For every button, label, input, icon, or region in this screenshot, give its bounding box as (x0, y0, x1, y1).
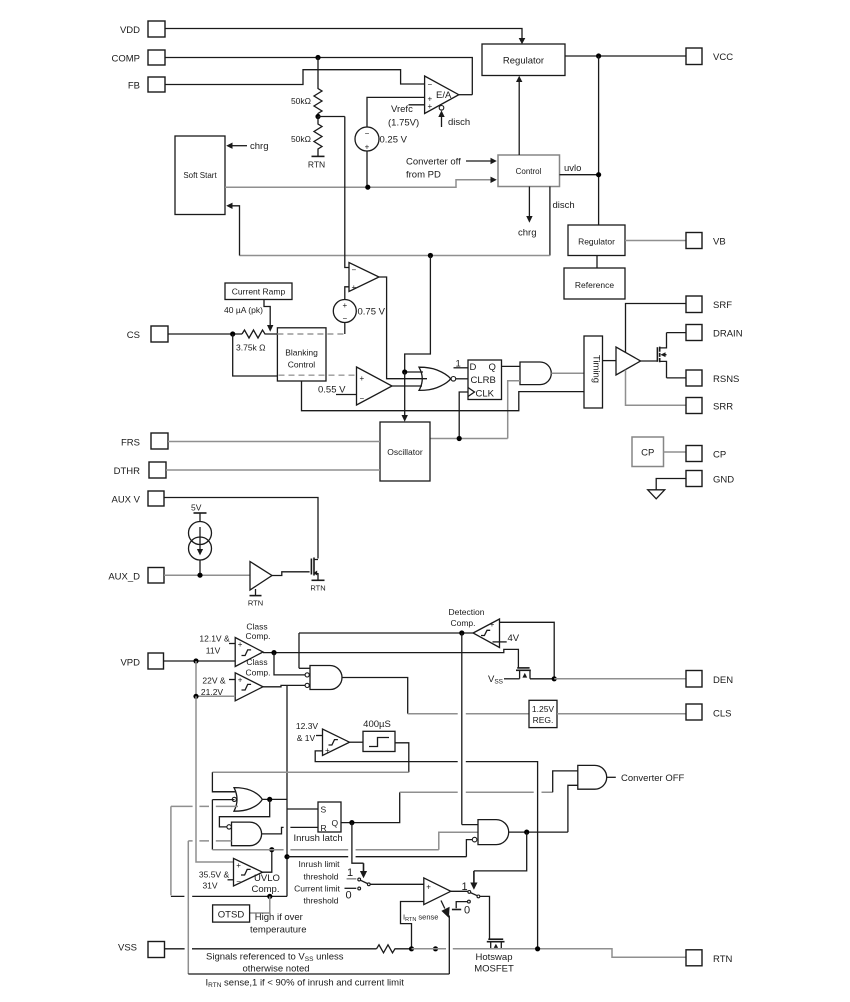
wire source to RSNS pin (667, 377, 687, 379)
svg-text:MOSFET: MOSFET (474, 964, 514, 975)
node disch bubble on E/A (439, 106, 444, 111)
svg-text:4V: 4V (508, 633, 520, 644)
label Vss (488, 674, 520, 686)
svg-text:Oscillator: Oscillator (387, 447, 423, 457)
svg-text:CS: CS (127, 330, 140, 341)
svg-text:AUX V: AUX V (111, 495, 140, 506)
svg-text:(1.75V): (1.75V) (388, 118, 419, 129)
transistor Hotswap MOSFET (487, 939, 505, 949)
wire class 2 net down to latch set (286, 685, 288, 896)
pin RSNS (686, 370, 739, 386)
wire FRS to oscillator (168, 441, 380, 443)
svg-text:IRTN sense,1 if < 90% of inrus: IRTN sense,1 if < 90% of inrush and curr… (206, 978, 405, 990)
transistor DEN pulldown MOSFET (516, 668, 531, 679)
ground RTN below buffer (248, 589, 263, 608)
wire CP block to CP pin (664, 451, 687, 453)
wire detection plus input to DEN (500, 622, 555, 679)
wire AND output to converter off gate (568, 785, 578, 832)
wire VPD down to UVLO comparator (196, 696, 234, 862)
label 12.1V and 11V threshold (199, 634, 235, 656)
comparator 12.3V inrush complete (323, 729, 350, 756)
resistor 50k lower (291, 117, 322, 157)
svg-text:DEN: DEN (713, 675, 733, 686)
pin VPD (120, 653, 163, 669)
wire reset arrow into oscillator (402, 372, 408, 422)
flip-flop D with CLRB CLK (468, 360, 502, 400)
node constant 1 at D input (454, 359, 469, 370)
node soft start line junction (365, 185, 370, 190)
svg-text:SRF: SRF (713, 300, 732, 311)
wire OR top input (212, 791, 236, 793)
pin VSS (118, 942, 165, 958)
svg-text:50kΩ: 50kΩ (291, 134, 311, 144)
svg-text:CLRB: CLRB (471, 375, 496, 386)
wire 0.75V to CS dashed line (344, 323, 346, 335)
wire RTN line (412, 949, 687, 958)
gate NAND class (305, 666, 342, 690)
source 0.25V offset (355, 127, 408, 152)
resistor 3.75k (236, 330, 277, 353)
svg-text:3.75k Ω: 3.75k Ω (236, 343, 266, 353)
wire dashed blanked output to 0.55V comparator (279, 374, 357, 376)
wire CLK from oscillator (459, 392, 468, 439)
wire dashed CS sense through blanking (277, 333, 344, 335)
label High if over temperauture (250, 912, 307, 936)
svg-text:S: S (321, 805, 327, 815)
wire oscillator output (430, 438, 508, 440)
svg-text:Comp.: Comp. (252, 884, 280, 895)
svg-text:CP: CP (713, 450, 726, 461)
svg-text:R: R (321, 823, 327, 833)
svg-text:Q: Q (489, 362, 496, 373)
gate NAND inrush reset (227, 822, 262, 846)
ground RTN below divider (308, 156, 325, 169)
pin DRAIN (686, 325, 743, 341)
wire UVLO to OR bubbled input (212, 800, 234, 850)
svg-text:+: + (490, 620, 495, 629)
wire CS pin to resistor (168, 333, 242, 335)
ground symbol GND (648, 490, 665, 499)
switch gate drive select (452, 881, 480, 917)
wire comparator to one-shot (350, 741, 364, 743)
node VCC junction (596, 53, 601, 58)
svg-text:−: − (360, 394, 365, 403)
wire OR output to latch S (262, 798, 287, 800)
pin CP (686, 446, 726, 462)
svg-text:Inrush latch: Inrush latch (294, 833, 343, 844)
block Current Ramp (225, 283, 292, 300)
pin GND (686, 471, 734, 487)
svg-text:disch: disch (448, 117, 470, 128)
wire NOR output to CLRB (456, 378, 468, 380)
label 12.3V and 1V threshold (296, 721, 323, 743)
wire VDD to Regulator (165, 29, 525, 45)
wire driver to gate (641, 360, 658, 362)
svg-text:+: + (360, 374, 365, 383)
comparator PWM soft start clamp (349, 263, 379, 293)
pin CLS (686, 704, 731, 720)
wire NAND class output to 1.25V regulator (342, 678, 408, 714)
pin CS (127, 326, 168, 342)
block Timing (584, 336, 603, 408)
svg-text:Inrush limit: Inrush limit (298, 859, 340, 869)
node discharge line junction (428, 253, 433, 258)
node OR output junction (267, 797, 272, 802)
wire Regulator to VCC pin (565, 55, 686, 57)
wire oscillator clock to AND input (508, 381, 520, 439)
svg-text:AUX_D: AUX_D (108, 572, 140, 583)
pin VB (686, 233, 726, 249)
node COMP divider junction (315, 55, 320, 60)
block Soft Start (175, 136, 225, 215)
pin VCC (686, 48, 733, 65)
wire DEN MOSFET drain to DEN pin (530, 678, 554, 680)
pin DTHR (114, 462, 166, 478)
label Inrush limit threshold (298, 859, 340, 881)
wire disch control arrow (438, 110, 470, 128)
wire buffer to AUX MOSFET gate (272, 572, 310, 576)
svg-text:1.25V: 1.25V (532, 704, 555, 714)
block Blanking Control (277, 328, 326, 381)
svg-text:RTN: RTN (310, 584, 325, 593)
svg-text:threshold: threshold (304, 871, 339, 881)
block Control (498, 155, 560, 187)
svg-text:RSNS: RSNS (713, 374, 739, 385)
node AND output junction (524, 830, 529, 835)
svg-text:Soft Start: Soft Start (183, 171, 217, 180)
wire OR feedback to NAND inrush bubble (219, 799, 269, 827)
svg-text:12.1V &: 12.1V & (199, 634, 230, 644)
svg-text:disch: disch (553, 200, 575, 211)
block CP charge pump (632, 437, 664, 467)
wire DTHR to oscillator (166, 469, 380, 471)
svg-text:RTN: RTN (248, 599, 263, 608)
pin DEN (686, 671, 733, 688)
wire comparator output to switch (451, 890, 468, 892)
svg-text:Timing: Timing (590, 355, 601, 383)
wire PWM comparator output to NOR (379, 277, 427, 379)
wire UVLO output up to gray enable line (263, 850, 272, 873)
svg-text:& 1V: & 1V (297, 733, 316, 743)
pin SRF (686, 296, 732, 313)
label Hotswap MOSFET (474, 952, 514, 975)
label Class Comp. 1 (245, 622, 270, 642)
svg-text:+: + (238, 676, 243, 685)
svg-text:VPD: VPD (120, 658, 140, 669)
node OTSD junction (267, 894, 272, 899)
block Oscillator (380, 422, 430, 481)
svg-text:50kΩ: 50kΩ (291, 96, 311, 106)
wire NAND inrush output to latch R (262, 827, 318, 834)
block Reference (564, 268, 625, 299)
resistor 50k upper (291, 58, 322, 117)
wire enable line to AND middle input (439, 832, 478, 849)
wire discharge into Soft Start (226, 203, 239, 256)
svg-text:chrg: chrg (250, 141, 268, 152)
node 5V supply (191, 503, 207, 522)
wire DEN pin (554, 678, 686, 680)
comparator Class Comp 2 (235, 673, 263, 701)
svg-text:40 µA (pk): 40 µA (pk) (224, 305, 263, 315)
svg-text:CLK: CLK (476, 389, 495, 400)
svg-text:Converter off: Converter off (406, 157, 461, 168)
wire bottom reset bus (188, 973, 449, 975)
block 1.25V REG (529, 700, 557, 727)
svg-text:Class: Class (246, 622, 267, 632)
svg-text:Comp.: Comp. (245, 668, 270, 678)
svg-text:12.3V: 12.3V (296, 721, 319, 731)
wire blanking to timing (302, 381, 585, 411)
node NOR input junction (402, 369, 407, 374)
wire VB regulator to VB pin (625, 240, 686, 242)
svg-text:+: + (236, 861, 241, 870)
wire current source to AUX_D node (199, 560, 201, 575)
svg-text:35.5V &: 35.5V & (199, 870, 230, 880)
block Regulator (VCC) (482, 44, 565, 76)
wire drain to DRAIN pin (667, 332, 687, 334)
wire SRF to driver (626, 304, 687, 353)
node VPD junction (193, 658, 198, 663)
wire UVLO enable line (212, 849, 438, 851)
svg-text:0: 0 (464, 905, 470, 917)
svg-text:VCC: VCC (713, 52, 733, 63)
wire comparator plus sense from hotswap drain (315, 751, 537, 949)
wire detection net to NAND top input (299, 633, 310, 668)
svg-text:Comp.: Comp. (450, 618, 475, 628)
svg-text:Comp.: Comp. (245, 631, 270, 641)
node divider mid junction (315, 114, 344, 119)
svg-text:+: + (238, 640, 243, 649)
node oscillator output junction (457, 436, 462, 441)
wire AND output to current limit switch (470, 832, 526, 890)
node AUX_D junction (197, 573, 202, 578)
gate NOR flip-flop clear (419, 367, 456, 390)
svg-text:−: − (236, 877, 241, 886)
transistor power MOSFET (657, 333, 666, 378)
wire SRR to driver (626, 370, 687, 406)
wire 0.25V source to E/A plus input (367, 97, 425, 127)
transistor AUX MOSFET (311, 558, 318, 581)
comparator Class Comp 1 (235, 638, 263, 667)
wire E/A output (459, 94, 473, 96)
svg-text:chrg: chrg (518, 228, 536, 239)
svg-text:0: 0 (346, 890, 352, 902)
label 4V threshold (493, 633, 520, 644)
block Regulator (VB) (568, 225, 625, 256)
svg-text:22V &: 22V & (202, 676, 225, 686)
svg-text:COMP: COMP (112, 54, 141, 65)
wire 0.25V source to soft start line (366, 151, 368, 187)
block 400uS one-shot (363, 719, 395, 752)
label Class Comp. 2 (245, 657, 270, 678)
svg-text:VB: VB (713, 237, 726, 248)
wire GND pin to ground (656, 479, 686, 490)
buffer AUX comparator (250, 562, 272, 591)
svg-text:threshold: threshold (304, 896, 339, 906)
wire Control to Regulator enable (516, 76, 522, 155)
label Current limit threshold (294, 883, 340, 905)
wire detection to AND top input (462, 824, 478, 826)
wire detection node line (299, 632, 473, 634)
svg-text:+: + (342, 301, 347, 310)
wire flip-flop Q to AND (502, 365, 521, 367)
svg-text:Blanking: Blanking (285, 348, 318, 358)
svg-text:Current Ramp: Current Ramp (232, 287, 286, 297)
svg-text:DRAIN: DRAIN (713, 329, 743, 340)
svg-text:+: + (325, 746, 330, 755)
svg-text:+: + (352, 283, 357, 292)
wire switch to hotswap gate (480, 896, 490, 939)
svg-text:5V: 5V (191, 503, 202, 513)
wire current ramp injection arrow (264, 300, 273, 332)
label Detection Comp. (449, 607, 485, 628)
svg-text:Control: Control (288, 360, 316, 370)
svg-text:Regulator: Regulator (578, 237, 615, 247)
wire AND output (509, 831, 568, 833)
svg-text:Current limit: Current limit (294, 883, 340, 893)
wire latch Q output (341, 792, 400, 822)
ground RTN below AUX MOSFET (310, 580, 325, 592)
svg-text:+: + (365, 143, 370, 152)
wire chrg output of Control (518, 187, 536, 239)
wire set line to OR input (212, 772, 408, 792)
node Q junction (349, 820, 354, 825)
pin RTN (686, 950, 732, 966)
wire disch from Control to discharge line (550, 187, 575, 256)
svg-text:−: − (428, 80, 433, 89)
node RTN sense taps (409, 946, 438, 951)
wire overtemp net to OR lower input (171, 806, 238, 895)
svg-text:RTN: RTN (308, 160, 325, 170)
node CS junction (230, 331, 235, 336)
wire discharge node down to NOR (405, 256, 431, 373)
wire Soft Start output to Control (Converter off from PD) (225, 177, 497, 188)
node DEN junction (552, 676, 557, 681)
wire OTSD output (250, 896, 270, 913)
comparator UVLO Comp (234, 858, 263, 886)
svg-text:11V: 11V (206, 646, 221, 656)
svg-text:from PD: from PD (406, 170, 441, 181)
wire one-shot output to latch set line (395, 743, 409, 772)
wire class 1 to NAND bubble input (274, 653, 305, 675)
node detection junction (459, 630, 464, 635)
node hotswap source junction (535, 946, 540, 951)
wire discharge line (240, 255, 550, 257)
source 5V current source (189, 522, 212, 561)
svg-text:REG.: REG. (533, 715, 554, 725)
svg-text:21.2V: 21.2V (201, 687, 224, 697)
pin AUX V (111, 491, 164, 506)
wire VPD to class comparator 1 (164, 660, 236, 662)
gate AND converter off (578, 765, 607, 789)
wire reset net down to bottom bus (187, 841, 189, 974)
note signals referenced (206, 952, 344, 975)
svg-text:400µS: 400µS (363, 719, 391, 730)
svg-text:1: 1 (347, 867, 353, 879)
wire CLS line (408, 713, 529, 715)
wire current comparator minus from RTN sense (401, 902, 424, 949)
svg-text:Reference: Reference (575, 280, 614, 290)
label Converter off from PD (406, 157, 497, 181)
svg-text:0.25 V: 0.25 V (380, 135, 408, 146)
gate OR inrush set (232, 788, 262, 812)
label 0.55 V (318, 385, 357, 396)
wire AND output to Timing (551, 372, 584, 374)
svg-text:SRR: SRR (713, 402, 733, 413)
svg-text:Regulator: Regulator (503, 56, 544, 67)
svg-text:Control: Control (516, 167, 542, 176)
wire switch to current comparator plus (370, 883, 424, 885)
svg-text:+: + (428, 102, 433, 111)
svg-text:−: − (352, 266, 357, 275)
wire uvlo from Control (560, 163, 599, 175)
switch inrush/current threshold select (345, 867, 371, 902)
wire detection net down to AND (461, 633, 463, 825)
svg-text:VDD: VDD (120, 25, 140, 36)
flip-flop Inrush latch (318, 802, 341, 833)
svg-text:temperauture: temperauture (250, 925, 307, 936)
svg-text:VSS: VSS (118, 943, 137, 954)
node class 1 output junction (271, 650, 276, 655)
wire AUX V to MOSFET drain (164, 498, 318, 559)
label 35.5V and 31V threshold (199, 870, 234, 891)
wire VPD to class comparator 2 (193, 661, 235, 699)
svg-text:−: − (342, 314, 347, 323)
svg-text:CP: CP (641, 448, 654, 459)
svg-text:Signals referenced to VSS unle: Signals referenced to VSS unless (206, 952, 344, 964)
wire Q to inrush threshold switch (352, 823, 367, 879)
svg-text:Class: Class (246, 657, 267, 667)
wire IRTN sense digital output (441, 901, 450, 975)
wire chrg into Soft Start (226, 141, 268, 152)
label 22V and 21.2V threshold (201, 676, 235, 698)
pin VDD (120, 21, 165, 37)
wire class 2 output to NAND (263, 685, 305, 686)
svg-text:E/A: E/A (436, 90, 452, 101)
svg-text:Hotswap: Hotswap (476, 952, 513, 963)
gate AND hotswap enable (472, 820, 508, 845)
node Vrefc label (388, 104, 425, 129)
wire Q to converter off gate (400, 771, 578, 792)
svg-text:uvlo: uvlo (564, 163, 581, 174)
svg-text:−: − (365, 129, 370, 138)
gate AND gate drive (520, 362, 551, 385)
svg-text:GND: GND (713, 475, 734, 486)
comparator Detection Comp (473, 619, 499, 648)
svg-text:FRS: FRS (121, 438, 140, 449)
svg-text:Q: Q (332, 818, 339, 828)
buffer gate driver (616, 347, 641, 375)
pin FRS (121, 433, 168, 449)
pin AUX_D (108, 568, 164, 584)
block OTSD (213, 905, 250, 922)
wire class set net tee (284, 854, 289, 859)
wire overtemp line to AND bubble input (287, 840, 472, 857)
wire FB to E/A inverting input (165, 70, 425, 85)
wire VSS line (165, 945, 412, 953)
wire converter off output (607, 773, 685, 784)
svg-text:UVLO: UVLO (254, 873, 280, 884)
wire 0.75V to comparator plus (345, 287, 349, 300)
wire IRTN reset net to NAND lower input (188, 840, 231, 842)
pin COMP (112, 50, 166, 65)
svg-text:DTHR: DTHR (114, 466, 141, 477)
svg-text:31V: 31V (202, 881, 217, 891)
svg-text:High if over: High if over (255, 912, 303, 923)
svg-text:RTN: RTN (713, 954, 732, 965)
svg-text:Detection: Detection (449, 607, 485, 617)
wire latch S input (287, 808, 318, 810)
